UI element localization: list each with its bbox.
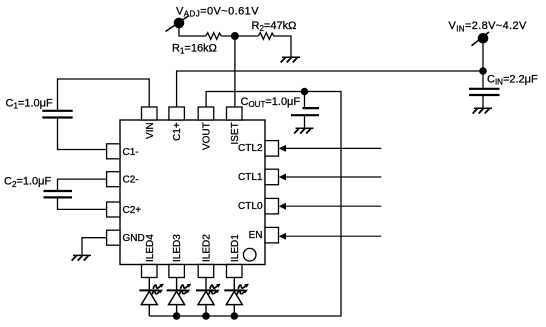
LED D2 [196,278,221,317]
pin C1- (left) [107,144,120,159]
svg-text:ILED3: ILED3 [172,234,183,262]
junction dot rail ILED2 [202,312,210,320]
wire VIN rail to C1+ pin [177,71,483,107]
pin VOUT (top) [198,107,214,120]
IC U1 body [120,120,265,265]
junction dot rail ILED1 [231,312,239,320]
svg-text:CTL1: CTL1 [238,172,263,183]
pin C1+ (top) [169,107,185,120]
junction dot COUT [301,88,309,96]
pin CTL1 (right) [265,169,279,185]
ground (COUT) [294,128,313,133]
wire C1 bottom to C1- pin [58,119,107,150]
ground (R2) [281,57,300,62]
pin CTL2 (right) [265,141,279,157]
wire CTL0 input [284,205,381,207]
junction dot R1/R2/ISET [231,32,239,40]
capacitor C2 [44,191,73,197]
capacitor COUT [291,92,319,129]
svg-text:ILED1: ILED1 [230,234,241,262]
wire EN input [284,235,381,237]
LED D1 [224,278,249,317]
svg-text:R2=47kΩ: R2=47kΩ [252,20,297,33]
terminal VIN [472,32,490,46]
wire ISET from junction down to ISET pin [234,36,236,107]
resistor R2 [258,33,274,40]
wire VADJ down [178,26,180,36]
pin VIN (top) [142,107,158,120]
wire CTL1 input [284,176,381,178]
capacitor C1 [42,111,72,118]
ground (GND pin) [72,255,91,260]
svg-text:C2-: C2- [123,175,139,186]
svg-text:C2+: C2+ [123,205,142,216]
wire R2 to ground [274,36,292,57]
svg-text:C2=1.0μF: C2=1.0μF [4,176,51,189]
wire C2 top to C2- pin [58,179,107,190]
pin EN (right) [265,227,279,243]
terminal VADJ [166,16,190,32]
arrowhead CTL2 [279,145,286,152]
wire VOUT to COUT rail [149,92,341,317]
svg-text:C1+: C1+ [172,122,183,141]
svg-text:GND: GND [123,233,145,244]
wire CTL2 input [284,147,381,149]
wire VADJ to R1 [178,35,205,37]
wire C2 bottom to C2+ pin [58,199,107,210]
pin ILED1 (bottom) [227,265,243,278]
pin C2+ (left) [107,202,120,217]
pin CTL0 (right) [265,198,279,214]
svg-text:CTL2: CTL2 [238,143,263,154]
junction dot rail ILED3 [173,312,181,320]
arrowhead EN [279,233,286,240]
wire VIN terminal down [482,41,484,71]
svg-text:ILED4: ILED4 [145,234,156,262]
svg-text:C1-: C1- [123,147,139,158]
junction dot VIN/CIN [479,67,487,75]
pin ILED4 (bottom) [142,265,158,278]
pin C2- (left) [107,172,120,187]
svg-text:C1=1.0μF: C1=1.0μF [6,98,53,111]
LED D4 [139,278,164,317]
svg-text:ISET: ISET [230,122,241,144]
arrowhead CTL0 [279,203,286,210]
svg-text:ILED2: ILED2 [202,234,213,262]
arrowhead CTL1 [279,174,286,181]
pin ILED3 (bottom) [169,265,185,278]
LED D3 [167,278,192,317]
pin ISET (top) [227,107,243,120]
svg-text:VOUT: VOUT [202,122,213,150]
wire R1 to junction to R2 [221,35,258,37]
svg-text:VIN: VIN [145,122,156,139]
ground (CIN) [473,108,492,113]
resistor R1 [206,33,222,40]
pin ILED2 (bottom) [198,265,214,278]
pin-1 circle marker [243,248,256,261]
wire GND pin to ground [82,238,107,256]
pin GND (left) [107,230,120,245]
capacitor CIN [469,71,500,108]
svg-text:R1=16kΩ: R1=16kΩ [172,42,217,55]
wire C1 top to VIN pin [58,79,150,110]
svg-text:CIN=2.2μF: CIN=2.2μF [487,74,538,87]
svg-text:CTL0: CTL0 [238,201,263,212]
svg-text:EN: EN [249,230,263,241]
